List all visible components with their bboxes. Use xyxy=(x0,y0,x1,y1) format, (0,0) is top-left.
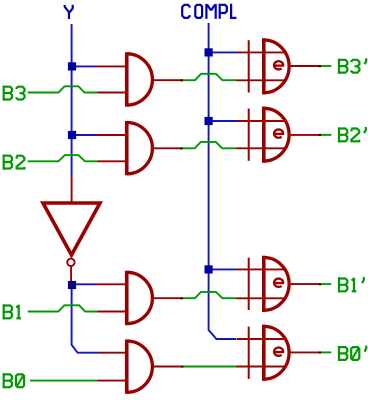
wire U5 output to B3' xyxy=(320,65,332,67)
node B2' label xyxy=(338,127,366,142)
pin-end dot U7 output xyxy=(319,283,321,285)
pin-end dot U6 output xyxy=(319,134,321,136)
wire B0 input xyxy=(30,380,98,382)
node Y label xyxy=(65,5,73,19)
inverter U9 bubble xyxy=(67,259,74,266)
wire U6 output to B2' xyxy=(320,134,332,136)
wire inverter output down-bend to U4 pin xyxy=(72,289,99,353)
enable-gate U6 (B2' row) xyxy=(237,107,320,163)
wire Y junction2 to U2 pin xyxy=(72,134,95,136)
node B1' label xyxy=(338,277,364,292)
wire COMPL junction5 to U6 pin xyxy=(213,120,237,122)
wire U7 output to B1' xyxy=(320,283,332,285)
wire COMPL vertical bus xyxy=(209,23,236,339)
wire B2 input with hop xyxy=(28,155,98,161)
and-gate U2 (B2 row) xyxy=(95,121,181,175)
wire B1 input with hop xyxy=(28,305,98,311)
wire Y junction1 to U1 pin xyxy=(72,65,95,67)
pin-end dot U1 output xyxy=(181,79,183,81)
pin-end dot U5 output xyxy=(319,65,321,67)
enable-gate U7 (B1' row) xyxy=(237,256,320,312)
wire U8 output to B0' xyxy=(320,351,332,353)
inverter U9 input pin xyxy=(71,177,73,204)
junction node on COMPL at U5 input xyxy=(205,48,213,56)
wire U1 output to U5 with hop xyxy=(182,74,237,80)
wire U4 output to U8 xyxy=(182,366,237,368)
wire inverter output junction3 to U3 pin xyxy=(72,283,95,285)
wire U2 output to U6 with hop xyxy=(181,142,236,148)
pin-end dot U2 output xyxy=(180,147,182,149)
inverter U9 output pin xyxy=(70,267,72,285)
wire B3 input with hop xyxy=(28,86,98,92)
node B0' label xyxy=(338,346,366,361)
junction node on Y at U2 input xyxy=(68,131,76,139)
node B3' label xyxy=(338,58,366,73)
inverter U9 triangle xyxy=(43,203,100,255)
enable-gate U8 (B0' row) xyxy=(237,325,320,381)
and-gate U3 (B1 row) xyxy=(95,271,182,325)
pin-end dot U8 output xyxy=(319,351,321,353)
pin-end dot U4 output xyxy=(181,366,183,368)
node B0 label xyxy=(3,373,25,388)
node B2 label xyxy=(3,155,25,170)
wire COMPL junction4 to U5 pin xyxy=(213,51,237,53)
wire Y vertical bus xyxy=(71,24,73,177)
node COMPL label xyxy=(182,4,236,19)
junction blend mark at inverter output xyxy=(70,282,72,289)
node B1 label xyxy=(3,304,21,319)
junction node at inverter output xyxy=(68,281,76,289)
junction node on COMPL at U7 input xyxy=(205,265,213,273)
pin-end dot U3 output xyxy=(181,297,183,299)
node B3 label xyxy=(3,86,25,101)
enable-gate U5 (B3' row) xyxy=(237,38,320,94)
wire COMPL junction6 to U7 pin xyxy=(213,268,237,270)
junction node on COMPL at U6 input xyxy=(205,117,213,125)
junction node on Y at U1 input xyxy=(68,62,76,70)
and-gate U1 (B3 row) xyxy=(95,52,182,106)
wire U3 output to U7 with hop xyxy=(182,292,237,298)
and-gate U4 (B0 row) xyxy=(98,340,183,394)
